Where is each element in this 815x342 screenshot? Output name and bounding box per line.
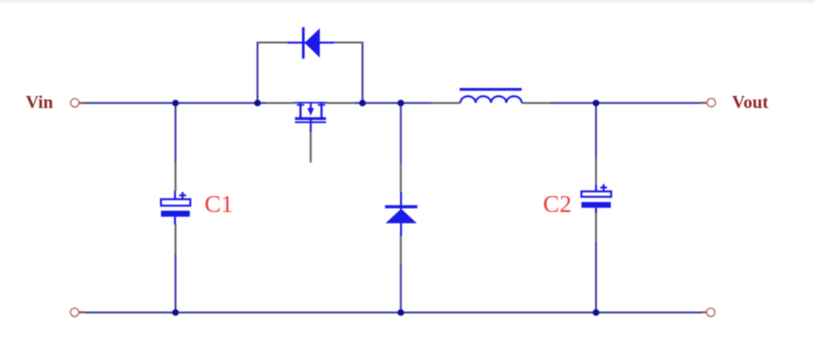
pin C2 top — [595, 157, 597, 185]
diode D1 (top, pointing left) — [288, 27, 335, 59]
pin D1 right — [334, 42, 362, 44]
inductor L1 — [460, 89, 522, 102]
svg-text:C2: C2 — [543, 191, 572, 218]
junction bottom rail D2 — [398, 309, 405, 316]
pin Q1 left — [266, 102, 294, 104]
pin L1 right — [522, 102, 550, 104]
wire loop right vertical — [362, 42, 364, 103]
wire C2 top — [595, 103, 597, 157]
pin Q1 gate — [310, 132, 312, 163]
wire bottom rail — [85, 312, 702, 314]
svg-text:C1: C1 — [205, 191, 234, 218]
pin L1 left — [432, 102, 461, 104]
pin C1 top — [175, 163, 177, 191]
junction bottom rail C2 — [593, 309, 600, 316]
junction top rail C1 — [172, 100, 179, 107]
pin C2 bottom — [595, 213, 597, 241]
junction top rail C2 — [593, 100, 600, 107]
junction top rail loop left — [254, 100, 261, 107]
terminal bottom left — [70, 308, 85, 316]
wire C1 top — [175, 103, 177, 163]
capacitor C1 (polarized) — [161, 191, 190, 225]
wire top rail Vin to MOSFET — [85, 102, 267, 104]
pin D1 left — [258, 42, 288, 44]
capacitor C2 (polarized) — [581, 184, 611, 213]
wire D2 top — [400, 103, 402, 164]
wire top rail MOSFET right to inductor — [355, 102, 432, 104]
svg-text:Vin: Vin — [26, 92, 53, 112]
junction bottom rail C1 — [172, 309, 179, 316]
wire D2 bottom — [400, 264, 402, 313]
pin D2 bottom — [400, 236, 402, 264]
pin Q1 right — [327, 102, 355, 104]
terminal Vin — [71, 99, 85, 107]
junction top rail D2 — [398, 100, 405, 107]
wire loop left vertical — [257, 42, 259, 103]
transistor Q1 (MOSFET) — [294, 103, 326, 132]
wire top rail inductor to Vout — [550, 102, 702, 104]
svg-text:Vout: Vout — [732, 92, 768, 112]
diode D2 (freewheel, pointing up) — [385, 192, 417, 236]
terminal bottom right — [702, 308, 716, 316]
terminal Vout — [702, 98, 716, 106]
pin D2 top — [400, 164, 402, 192]
wire C1 bottom — [175, 253, 177, 312]
pin C1 bottom — [175, 225, 177, 254]
junction top rail loop right — [359, 100, 366, 107]
wire C2 bottom — [595, 241, 597, 312]
